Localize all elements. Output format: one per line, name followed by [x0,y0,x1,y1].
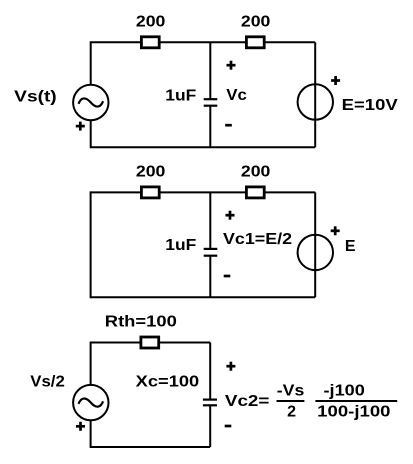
resistor R1 200 (circuit1 left) [141,37,159,48]
source Vs/2 circle [73,385,108,420]
svg-text:Rth=100: Rth=100 [105,313,177,330]
wire through E source circuit2 [314,235,316,270]
plus sign of E circuit2 [331,226,340,235]
plus sign of Vs/2 [76,422,85,431]
wire: circuit2 top horizontal [91,191,316,193]
wire: circuit1 right vertical [314,42,316,147]
fraction bar of -j100 over 100-j100 [315,400,397,402]
wire: circuit3 right vertical lower [209,405,211,447]
svg-text:200: 200 [136,163,166,180]
label E circuit2 [345,238,356,255]
svg-text:Xc=100: Xc=100 [136,374,200,391]
capacitor C2 1uF top plate [204,248,218,250]
label 200 for R4 [241,163,271,180]
svg-text:200: 200 [241,14,271,31]
svg-text:-Vs: -Vs [277,382,305,399]
capacitor C1 1uF bottom plate [204,105,218,107]
svg-text:1uF: 1uF [165,88,196,105]
wire: circuit2 right vertical [314,192,316,297]
label Vc1=E/2 [223,231,292,248]
fraction -Vs over 2 numerator [277,382,305,399]
svg-text:E: E [345,238,356,255]
plus sign above Vc [227,61,236,70]
wire: circuit2 middle vertical lower [209,256,211,298]
wire: circuit2 bottom horizontal [91,296,316,298]
wire through E=10V source [314,84,316,119]
minus sign below Vc [225,124,232,127]
fraction bar of -Vs/2 [277,400,305,402]
capacitor C1 1uF top plate [204,98,218,100]
label 200 for R3 [136,163,166,180]
svg-text:200: 200 [136,14,166,31]
label Xc=100 [136,374,200,391]
wire: circuit3 left vertical upper [90,342,92,386]
resistor R4 200 (circuit2 right) [246,187,264,198]
label Vs(t) [14,88,57,105]
svg-text:Vc: Vc [226,87,247,104]
svg-text:Vs/2: Vs/2 [30,373,65,390]
wire: circuit1 left vertical upper [90,41,92,85]
label E=10V [342,97,398,114]
svg-text:-j100: -j100 [324,382,365,399]
svg-text:2: 2 [287,403,296,420]
label 1uF [165,88,196,105]
source Vs/2 sine wave [79,399,104,407]
svg-text:E=10V: E=10V [342,97,398,114]
wire: circuit3 bottom horizontal [91,446,211,448]
fraction -j100 numerator [324,382,365,399]
minus sign below Vc2 [225,425,232,428]
svg-text:Vs(t): Vs(t) [14,88,57,105]
svg-text:Vc1=E/2: Vc1=E/2 [223,231,292,248]
wire: circuit3 left vertical lower [90,420,92,448]
wire: circuit1 middle vertical lower [209,106,211,148]
minus sign below Vc1 [224,275,231,278]
source E=10V circle [298,84,333,119]
plus sign above Vc1 [226,211,235,220]
wire: circuit3 top horizontal [91,342,211,344]
capacitor C3 Xc top plate [203,399,217,401]
wire: circuit1 top horizontal [91,41,316,43]
fraction denominator 100-j100 [317,403,390,420]
label 200 for R1 [136,14,166,31]
label Vs/2 [30,373,65,390]
wire: circuit1 middle vertical upper [209,42,211,99]
label Vc2= [225,393,270,410]
wire: circuit2 middle vertical upper [209,192,211,249]
label 1uF circuit2 [165,237,196,254]
label Vc [226,87,247,104]
plus sign of Vs(t) [76,122,85,131]
wire: circuit1 left vertical lower [90,120,92,148]
resistor R3 200 (circuit2 left) [141,187,159,198]
plus sign above Vc2 [226,362,235,371]
source Vs(t) circle [73,85,108,120]
wire: circuit2 left vertical [90,191,92,298]
resistor Rth rect [141,337,159,348]
label Rth=100 [105,313,177,330]
source E circle circuit2 [298,235,333,270]
capacitor C3 Xc bottom plate [203,404,217,406]
plus sign of E=10V [331,76,340,85]
label 200 for R2 [241,14,271,31]
resistor R2 200 (circuit1 right) [246,37,264,48]
svg-text:200: 200 [241,163,271,180]
svg-text:1uF: 1uF [165,237,196,254]
svg-text:Vc2=: Vc2= [225,393,270,410]
fraction -Vs over 2 denominator [287,403,296,420]
source Vs(t) sine wave [79,98,104,106]
capacitor C2 1uF bottom plate [204,255,218,257]
wire: circuit3 right vertical upper [209,343,211,400]
wire: circuit1 bottom horizontal [91,146,316,148]
svg-text:100-j100: 100-j100 [317,403,390,420]
